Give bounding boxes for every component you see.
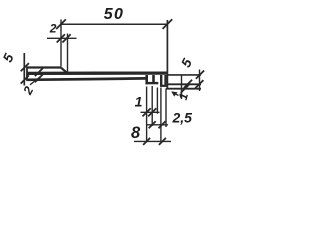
svg-text:1: 1 <box>135 94 143 110</box>
dimension 5 left vertical <box>23 53 25 86</box>
svg-text:1: 1 <box>176 91 191 101</box>
tick 8 right <box>159 138 166 145</box>
tick 2,5 right <box>159 121 166 128</box>
tick left 50 <box>56 19 66 29</box>
tick 5 left upper <box>21 63 29 71</box>
dimension 2 top line <box>47 37 77 39</box>
extension line left of 50 and 2-top <box>60 20 62 67</box>
hook channel bottom <box>146 82 159 84</box>
svg-text:5: 5 <box>0 51 17 65</box>
dimension 5 right vertical <box>199 70 201 92</box>
tick 2,5 left <box>149 121 156 128</box>
tick right 50 <box>163 19 173 29</box>
profile left end cap <box>26 66 28 80</box>
svg-text:2: 2 <box>49 22 57 36</box>
extension C right tooth down <box>160 88 162 143</box>
tick 1 right top <box>184 80 192 88</box>
dimension 8 bottom line <box>134 140 171 142</box>
tick 1 right bottom <box>181 85 189 93</box>
svg-text:5: 5 <box>178 56 195 70</box>
extension D T3 down <box>165 89 167 128</box>
extension A hook left down <box>146 87 148 143</box>
dimension 2,5 bottom line <box>146 124 168 126</box>
tick 5 right bottom <box>195 80 203 88</box>
tick right 2 top <box>62 34 70 42</box>
extension E mid down <box>156 88 158 114</box>
tick 2 left upper <box>35 68 43 76</box>
arrowhead 1 right <box>171 91 177 96</box>
tick 1 bottom left <box>143 108 151 116</box>
hook foot bottom <box>160 85 167 87</box>
leader arrow 1 right <box>172 92 178 96</box>
tick 8 left <box>143 138 150 145</box>
tick left 2 top <box>57 34 65 42</box>
extension line 2-top right <box>67 34 69 73</box>
hook wall W2 <box>152 75 155 84</box>
hook wall W3 <box>160 75 162 87</box>
dimension 1 bottom line <box>141 111 160 113</box>
tick 5 left lower <box>21 75 29 83</box>
hook right limb <box>164 75 166 87</box>
dimension 1 right vertical <box>181 75 183 99</box>
profile top face <box>27 71 167 75</box>
tick 5 right top <box>196 71 204 79</box>
svg-text:50: 50 <box>104 6 124 23</box>
tick 1 bottom right <box>148 108 156 116</box>
tick 2 left lower <box>35 74 43 82</box>
hook wall W1 <box>145 75 148 84</box>
profile step slant <box>61 68 68 74</box>
leader 2 left <box>30 77 40 85</box>
extension top face right <box>167 74 201 76</box>
svg-text:2,5: 2,5 <box>172 110 193 126</box>
dimension 50 line <box>61 23 167 25</box>
extension B hook T2 down <box>151 86 153 126</box>
profile bottom face <box>27 78 147 79</box>
profile right end vertical with extensions <box>166 20 168 90</box>
profile raised fold top edge <box>27 66 62 68</box>
extension teeth bottom right <box>167 83 201 85</box>
svg-text:8: 8 <box>131 124 141 142</box>
svg-text:2: 2 <box>20 84 36 98</box>
extension foot bottom right <box>166 88 201 90</box>
